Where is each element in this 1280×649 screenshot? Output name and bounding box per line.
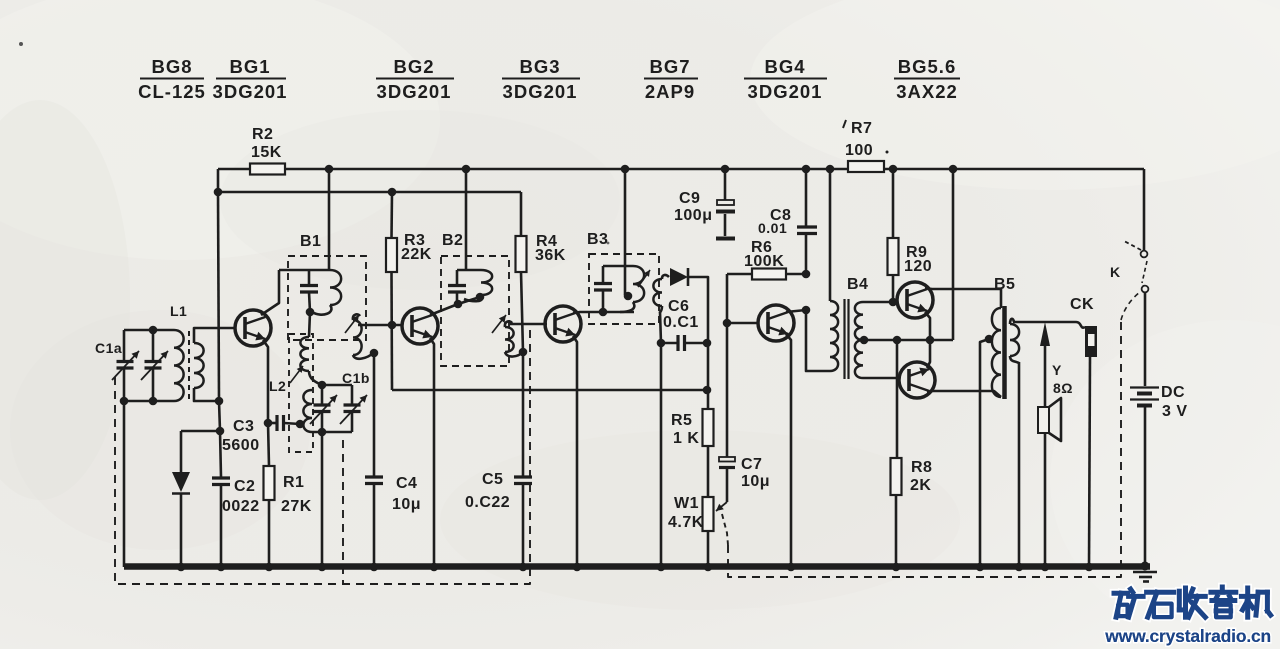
svg-text:22K: 22K <box>401 246 432 263</box>
svg-text:C7: C7 <box>741 456 762 473</box>
wire diode to detector node <box>688 277 708 390</box>
wire BG2 collector <box>430 297 480 315</box>
transistor BG2 <box>402 308 438 344</box>
wire osc to ground <box>318 432 327 571</box>
inductor B5 secondary <box>1010 324 1019 356</box>
svg-text:R7: R7 <box>851 120 872 137</box>
svg-text:2K: 2K <box>910 477 931 494</box>
gang linkage dashed box <box>115 330 530 584</box>
svg-text:www.crystalradio.cn: www.crystalradio.cn <box>1104 626 1271 646</box>
inductor L1 secondary <box>194 343 204 388</box>
node B1 sec bottom <box>370 349 379 358</box>
volume/switch linkage <box>722 292 1140 577</box>
svg-text:0.C22: 0.C22 <box>465 494 510 511</box>
capacitor C8 <box>758 165 817 274</box>
wire tap supply riser <box>949 165 958 340</box>
variable capacitor C1b-2 <box>340 385 367 432</box>
resistor R5 <box>671 390 714 447</box>
wire B1 sec to BG2 base <box>353 314 403 325</box>
resistor R9 <box>888 165 933 307</box>
wire R6 to BG4 base <box>723 274 759 327</box>
variable capacitor C1a-2 <box>141 330 168 401</box>
tuning arrow B2 <box>492 315 506 333</box>
wire B5 sec top <box>1010 319 1085 328</box>
wire BG3 collector <box>573 308 634 317</box>
inductor L2 upper <box>300 337 309 371</box>
svg-text:100K: 100K <box>744 253 784 270</box>
inductor L2 box <box>289 334 313 452</box>
inductor B3 secondary <box>653 279 662 306</box>
svg-text:3DG201: 3DG201 <box>213 81 288 102</box>
wire base-bias rail <box>214 188 521 197</box>
svg-text:R1: R1 <box>283 474 304 491</box>
transformer B1 box <box>288 256 366 340</box>
wire W1 to ground <box>704 531 713 571</box>
capacitor C4 <box>365 475 421 513</box>
wiper arrow W1 <box>716 502 727 511</box>
inductor L1 label <box>170 303 187 319</box>
transistor BG6 <box>899 362 935 398</box>
svg-text:B2: B2 <box>442 232 463 249</box>
svg-text:L1: L1 <box>170 303 187 319</box>
svg-text:C2: C2 <box>234 478 255 495</box>
switch K <box>1110 241 1148 292</box>
wire C4 to ground <box>370 484 379 571</box>
tuning arrow B3 <box>638 270 650 287</box>
wire BG1 emitter <box>263 340 272 427</box>
wire B3 top <box>603 265 633 268</box>
inductor B5 primary <box>992 308 1001 397</box>
svg-text:C5: C5 <box>482 471 503 488</box>
wire C6 left to ground <box>657 343 666 571</box>
transformer B2 label <box>442 232 463 249</box>
label BG1 / 3DG201 <box>213 56 288 102</box>
svg-text:C4: C4 <box>396 475 417 492</box>
wire to C4 <box>373 353 376 476</box>
diode BG7 <box>670 268 688 286</box>
core B5 <box>1002 306 1007 399</box>
label BG5.6 / 3AX22 <box>894 56 960 102</box>
wire C5 to ground <box>519 484 528 571</box>
variable capacitor C1b-1 <box>310 385 337 432</box>
transistor BG4 <box>758 305 794 341</box>
inductor B1 secondary <box>353 320 373 359</box>
svg-text:10μ: 10μ <box>392 496 421 513</box>
wire B2 top node <box>457 269 481 272</box>
svg-text:120: 120 <box>904 258 932 275</box>
node C1b label <box>342 370 370 386</box>
svg-text:0022: 0022 <box>222 498 260 515</box>
transformer B4 label <box>847 276 868 293</box>
svg-text:L2: L2 <box>269 378 286 394</box>
wire BG4 collector <box>786 306 810 315</box>
inductor B4 primary <box>830 301 838 371</box>
svg-text:C1a: C1a <box>95 340 122 356</box>
resistor R1 <box>264 423 312 515</box>
transformer B3 box <box>589 254 659 324</box>
inductor B2 primary <box>464 270 492 301</box>
resistor R8 <box>891 340 933 571</box>
capacitor B3 internal <box>594 266 612 312</box>
svg-text:0.01: 0.01 <box>758 220 787 236</box>
potentiometer W1 <box>668 446 714 531</box>
battery DC 3V <box>1130 384 1188 420</box>
transistor BG3 <box>545 306 581 342</box>
svg-text:B5: B5 <box>994 276 1015 293</box>
svg-text:B3: B3 <box>587 231 608 248</box>
svg-text:BG2: BG2 <box>393 56 434 77</box>
wire B4 primary riser <box>826 165 835 301</box>
svg-text:15K: 15K <box>251 144 282 161</box>
wire L1 sec to BG1 base <box>194 328 236 343</box>
svg-text:3DG201: 3DG201 <box>503 81 578 102</box>
svg-text:C9: C9 <box>679 190 700 207</box>
capacitor C9 <box>674 165 735 239</box>
wire B2 supply riser <box>462 165 471 270</box>
wire BG4 emitter <box>786 334 795 571</box>
tuning arrow B1 <box>345 315 359 333</box>
capacitor C7 <box>719 323 770 502</box>
transformer B1 label <box>300 233 321 250</box>
wire C1b bottom <box>312 428 352 437</box>
capacitor C5 <box>465 471 532 511</box>
inductor B3 primary <box>620 266 644 312</box>
wire BG6 base <box>863 377 900 380</box>
svg-text:3DG201: 3DG201 <box>377 81 452 102</box>
capacitor C3 <box>222 415 304 454</box>
wire B4 tap line <box>860 336 953 345</box>
svg-text:BG4: BG4 <box>764 56 805 77</box>
wire C1a loop top <box>124 326 174 335</box>
wire AGC line <box>392 386 711 395</box>
svg-text:4.7K: 4.7K <box>668 514 704 531</box>
inductor B2 secondary <box>505 327 523 357</box>
variable capacitor C1a-1 <box>112 330 139 401</box>
svg-text:8Ω: 8Ω <box>1053 380 1073 396</box>
node B2 bottom <box>454 293 485 309</box>
core B4 <box>845 299 849 379</box>
wire C1a loop bottom <box>120 397 174 406</box>
wire BG6 collector <box>927 391 1001 397</box>
wire switch to battery <box>1144 292 1147 386</box>
wire L1 sec to node <box>194 388 219 401</box>
wire gang to ground bus <box>123 401 126 567</box>
label BG7 / 2AP9 <box>644 56 698 102</box>
svg-text:BG5.6: BG5.6 <box>898 56 956 77</box>
svg-text:BG3: BG3 <box>519 56 560 77</box>
svg-text:DC: DC <box>1161 384 1185 401</box>
inductor L1 primary <box>174 330 184 401</box>
core L1 <box>188 331 190 400</box>
svg-text:2AP9: 2AP9 <box>645 81 695 102</box>
wire B2 sec to BG3 base <box>505 321 547 327</box>
transistor BG5 <box>897 282 933 318</box>
inductor B1 primary <box>312 270 341 315</box>
resistor R6 <box>727 239 810 280</box>
svg-text:10μ: 10μ <box>741 473 770 490</box>
svg-text:BG1: BG1 <box>229 56 270 77</box>
svg-text:CL-125: CL-125 <box>138 81 206 102</box>
capacitor B2 internal <box>448 270 466 304</box>
gang linkage C1b <box>342 440 344 584</box>
node B5 tap <box>985 335 994 344</box>
svg-text:CK: CK <box>1070 296 1094 313</box>
transformer B3 label <box>587 231 608 248</box>
node B2 sec bottom <box>519 348 528 357</box>
svg-text:3 V: 3 V <box>1162 403 1188 420</box>
svg-text:W1: W1 <box>674 495 699 512</box>
transformer B2 box <box>441 256 509 366</box>
wire BG6 emitter <box>927 340 930 368</box>
wire BG5 base <box>863 301 898 304</box>
inductor B4 secondary <box>855 302 863 378</box>
label BG3 / 3DG201 <box>502 56 580 102</box>
label BG2 / 3DG201 <box>376 56 454 102</box>
resistor R3 <box>386 192 432 272</box>
jack CK <box>1070 296 1097 571</box>
wire positive supply rail <box>218 168 1144 171</box>
wire R1 to ground <box>265 500 274 571</box>
svg-text:27K: 27K <box>281 498 312 515</box>
svg-text:1 K: 1 K <box>673 430 699 447</box>
wire rail to switch <box>1143 169 1146 250</box>
svg-text:B4: B4 <box>847 276 868 293</box>
svg-text:0.C1: 0.C1 <box>663 314 699 331</box>
svg-text:K: K <box>1110 264 1121 280</box>
transistor BG1 <box>235 310 271 346</box>
capacitor C2 <box>212 478 260 515</box>
wire B1 top node <box>279 269 330 272</box>
label BG8 / CL-125 <box>138 56 206 102</box>
wire BG1 collector <box>261 270 279 315</box>
transformer B5 label <box>994 276 1015 293</box>
wire BG3 emitter <box>573 336 582 571</box>
svg-text:C6: C6 <box>668 298 689 315</box>
ground bus <box>124 562 1150 571</box>
wire L2 upper to C1b <box>309 371 322 385</box>
diode detector <box>172 431 190 571</box>
resistor R7 <box>843 120 889 172</box>
svg-text:B1: B1 <box>300 233 321 250</box>
speaker plug arrow <box>1040 322 1050 571</box>
svg-text:3DG201: 3DG201 <box>748 81 823 102</box>
svg-text:C1b: C1b <box>342 370 370 386</box>
wire B3 supply riser <box>621 165 633 301</box>
capacitor B1 internal <box>300 270 318 312</box>
node C1a label <box>95 340 122 356</box>
svg-text:C3: C3 <box>233 418 254 435</box>
wire B3 sec bottom <box>657 306 666 347</box>
label BG4 / 3DG201 <box>744 56 827 102</box>
svg-text:100μ: 100μ <box>674 207 712 224</box>
wire R3 to base/AGC <box>388 272 397 390</box>
node B1 bottom <box>306 308 315 317</box>
wire B1 supply riser <box>325 165 334 270</box>
svg-text:5600: 5600 <box>222 437 260 454</box>
wire BG5 emitter <box>925 312 930 340</box>
wire B1 to L2 <box>309 312 310 337</box>
ground symbol <box>1133 572 1157 582</box>
wire B5 sec bottom <box>1010 356 1023 571</box>
resistor R2 <box>250 126 285 175</box>
svg-text:R8: R8 <box>911 459 932 476</box>
svg-text:R5: R5 <box>671 412 692 429</box>
wire C2 to ground <box>217 485 226 571</box>
svg-text:R2: R2 <box>252 126 273 143</box>
svg-text:3AX22: 3AX22 <box>896 81 958 102</box>
svg-text:100: 100 <box>845 142 873 159</box>
wire left supply drop <box>215 169 225 477</box>
tuning arrow L2 <box>290 366 303 383</box>
wire B3 sec top to diode <box>662 275 669 279</box>
inductor L2 lower <box>303 390 312 432</box>
svg-text:BG8: BG8 <box>151 56 192 77</box>
svg-text:BG7: BG7 <box>649 56 690 77</box>
wire detector node <box>181 430 220 433</box>
wire to C5 <box>522 352 525 476</box>
capacitor C6 <box>661 298 711 351</box>
svg-text:36K: 36K <box>535 247 566 264</box>
resistor R4 <box>516 192 566 352</box>
wire battery to ground <box>1144 407 1147 565</box>
wire collector to B4 <box>806 310 830 371</box>
watermark crystalradio <box>1104 587 1271 646</box>
speaker Y <box>1038 362 1073 441</box>
wire C1b top <box>318 381 352 390</box>
wire BG5 collector <box>925 288 1001 308</box>
wire BG2 emitter <box>430 338 439 571</box>
inductor L2 label <box>269 378 286 394</box>
svg-text:Y: Y <box>1052 362 1062 378</box>
wire B5 tap to ground <box>976 339 989 571</box>
